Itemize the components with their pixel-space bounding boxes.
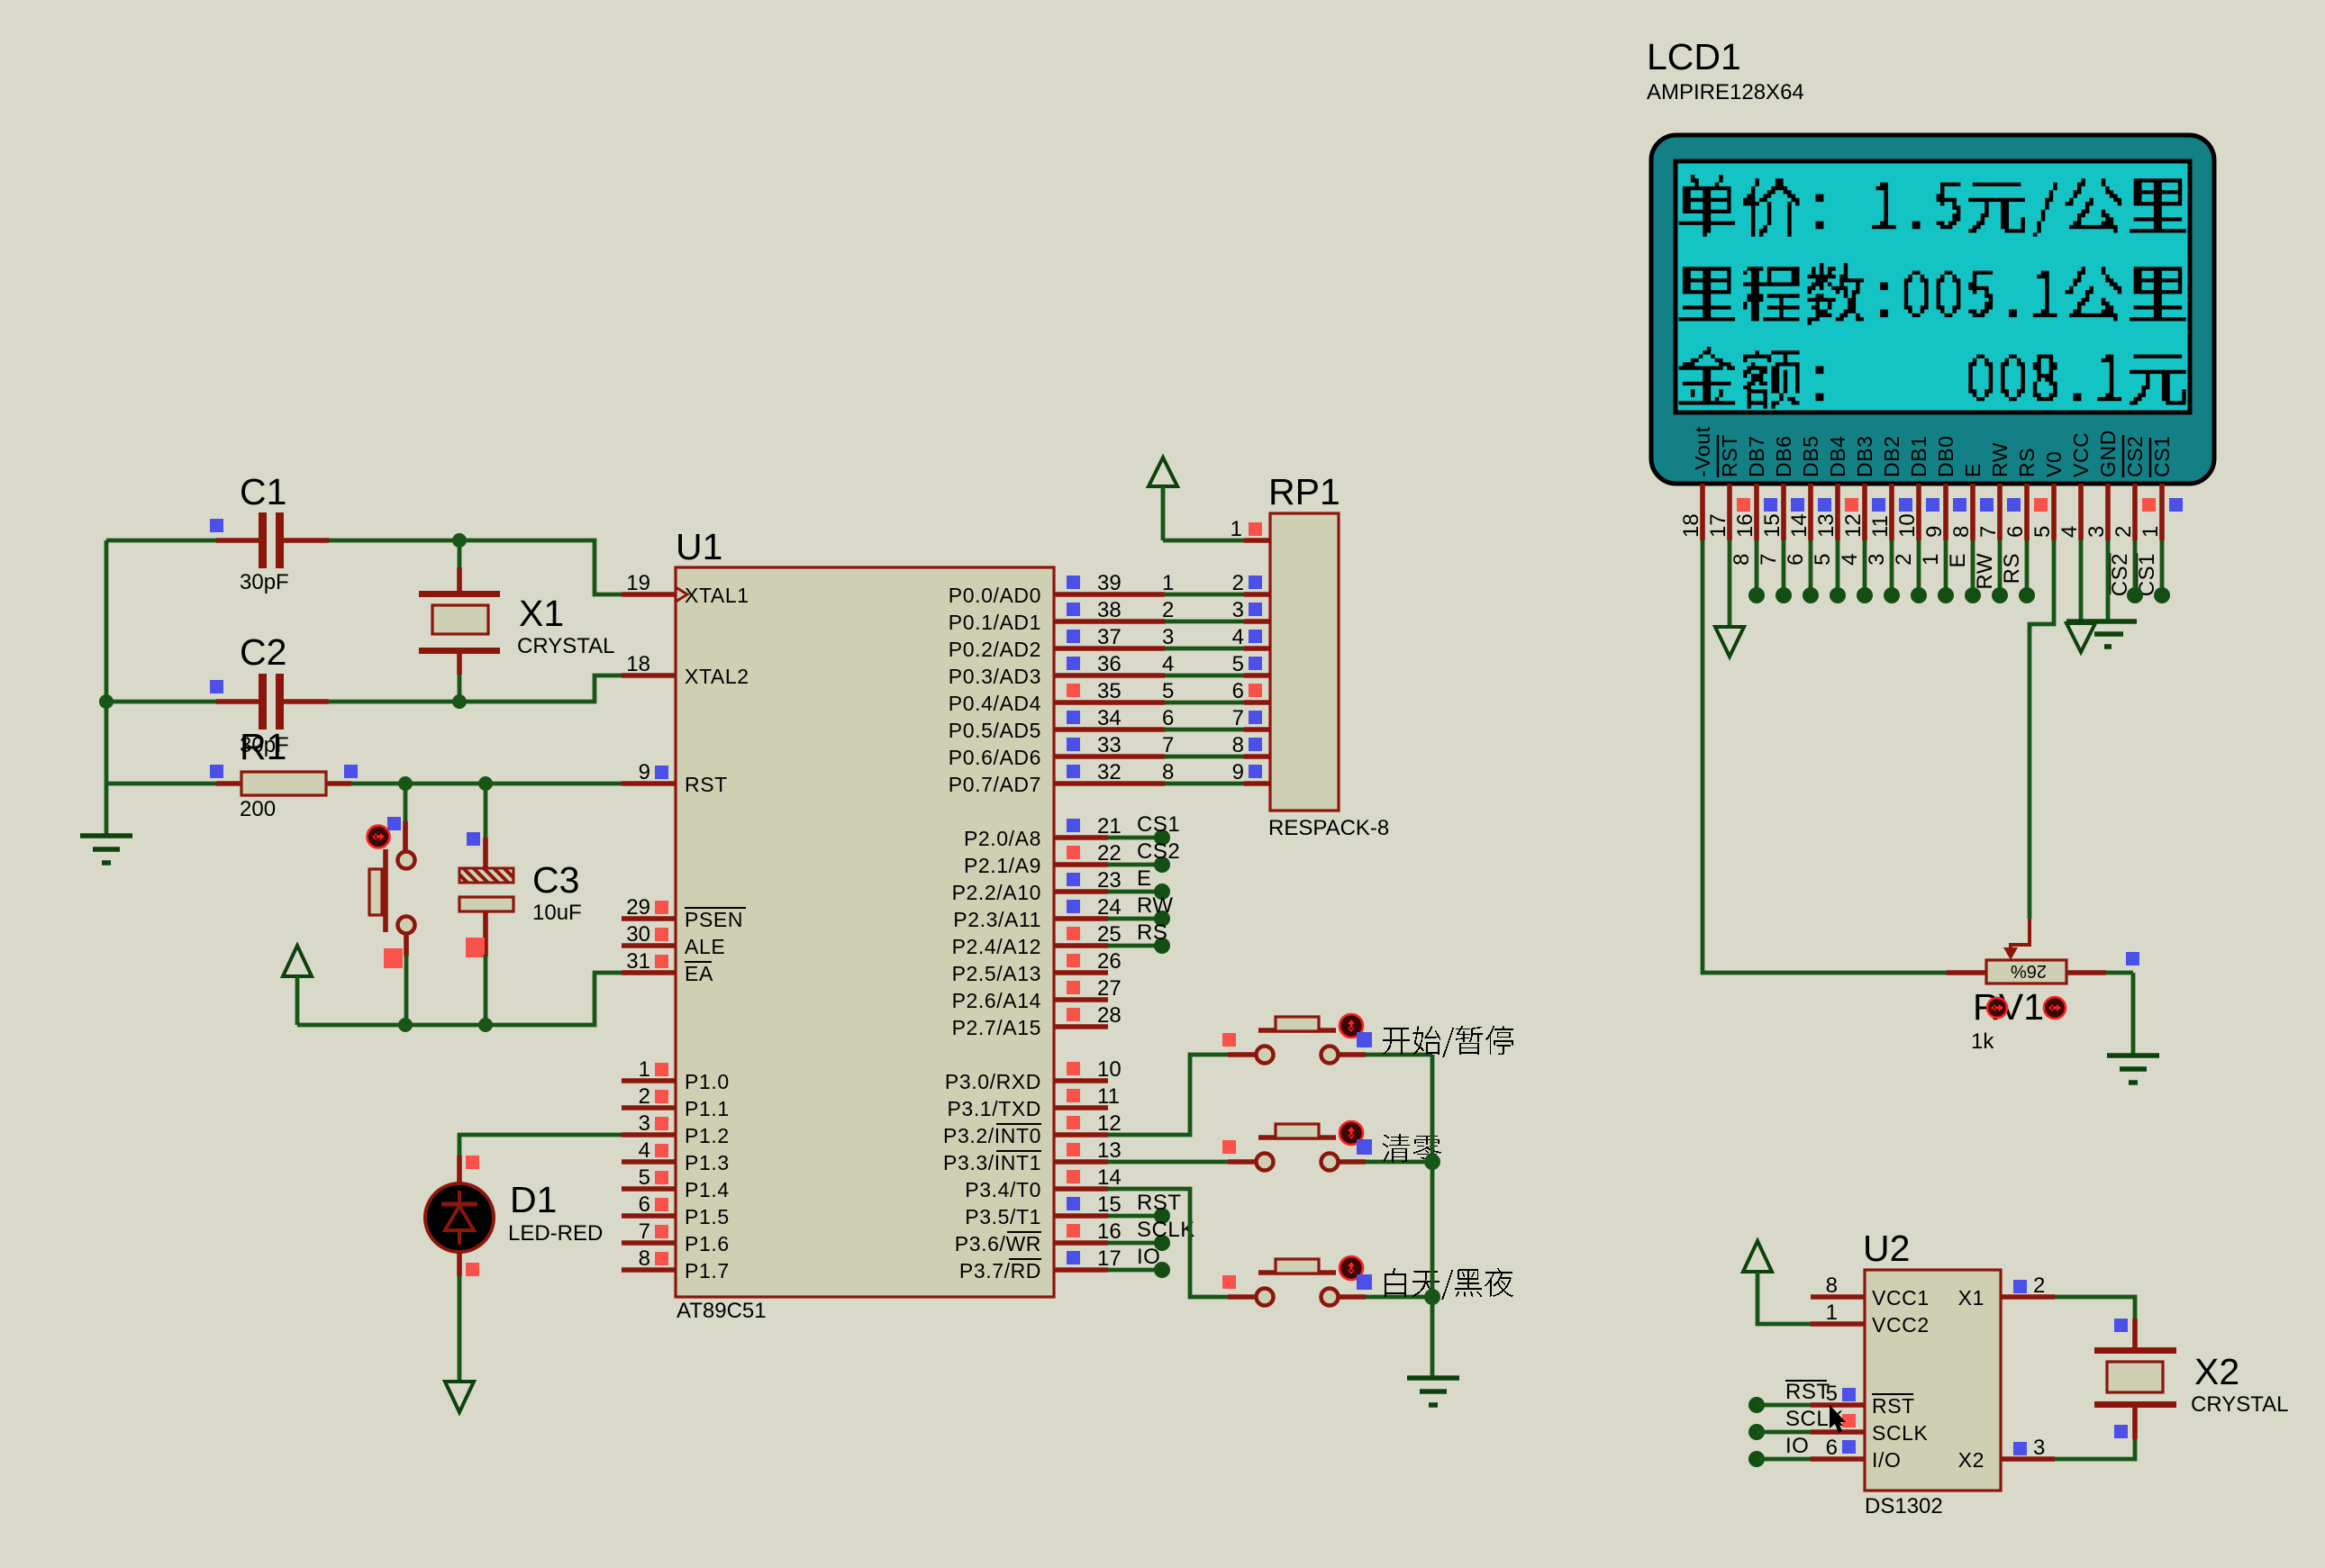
svg-text:XTAL1: XTAL1	[685, 584, 749, 607]
svg-text:9: 9	[639, 760, 650, 784]
svg-text:P0.1/AD1: P0.1/AD1	[949, 611, 1041, 634]
svg-text:P3.2/INT0: P3.2/INT0	[943, 1124, 1041, 1147]
svg-text:16: 16	[1733, 513, 1757, 538]
svg-text:P1.1: P1.1	[685, 1097, 730, 1120]
svg-text:2: 2	[1162, 598, 1174, 622]
wires RST/SCLK/IO nets to U2	[1748, 1380, 1844, 1467]
potentiometer RV1 1k	[1971, 919, 2139, 1054]
svg-text:32: 32	[1097, 760, 1122, 784]
svg-text:P3.1/TXD: P3.1/TXD	[947, 1097, 1041, 1120]
svg-text:EA: EA	[685, 962, 713, 985]
svg-text:3: 3	[639, 1111, 650, 1136]
svg-text:P1.7: P1.7	[685, 1259, 730, 1282]
svg-text:5: 5	[1811, 553, 1835, 566]
svg-text:10: 10	[1895, 513, 1920, 538]
svg-text:8: 8	[1826, 1273, 1838, 1298]
svg-text:5: 5	[1162, 679, 1174, 703]
wire bottom rail to EA	[297, 973, 622, 1025]
svg-text:8: 8	[1162, 760, 1174, 784]
svg-text:18: 18	[1679, 513, 1703, 538]
svg-text:GND: GND	[2096, 430, 2120, 477]
svg-text:E: E	[1961, 463, 1984, 477]
svg-text:3: 3	[1162, 625, 1174, 649]
svg-text:10uF: 10uF	[532, 901, 582, 925]
svg-text:5: 5	[1232, 652, 1244, 676]
wire left vertical bus C1-C2-R1 rows	[104, 540, 109, 784]
svg-text:15: 15	[1760, 513, 1785, 538]
svg-text:P1.2: P1.2	[685, 1124, 730, 1147]
svg-text:D1: D1	[510, 1179, 557, 1220]
svg-text:4: 4	[1232, 625, 1244, 649]
svg-text:P2.3/A11: P2.3/A11	[953, 908, 1041, 931]
svg-text:R1: R1	[240, 726, 286, 767]
svg-text:22: 22	[1097, 841, 1122, 866]
svg-text:8: 8	[1949, 526, 1974, 538]
op-amp U1 AT89C51 microcontroller body	[676, 526, 1054, 1323]
svg-text:39: 39	[1097, 571, 1122, 595]
svg-text:IO: IO	[1137, 1245, 1160, 1269]
svg-text:28: 28	[1097, 1003, 1122, 1028]
svg-text:RST: RST	[1872, 1394, 1915, 1418]
svg-text:1: 1	[1826, 1301, 1838, 1325]
svg-text:P2.5/A13: P2.5/A13	[952, 962, 1041, 985]
svg-text:24: 24	[1097, 895, 1122, 920]
node junction button2	[1424, 1154, 1440, 1170]
svg-text:9: 9	[1232, 760, 1244, 784]
svg-text:P2.7/A15: P2.7/A15	[952, 1016, 1041, 1039]
wire buttons common vertical	[1430, 1055, 1435, 1378]
svg-text:8: 8	[1730, 553, 1754, 566]
svg-text:7: 7	[1232, 706, 1244, 730]
svg-text:CS1: CS1	[1137, 812, 1180, 837]
svg-text:P2.1/A9: P2.1/A9	[964, 854, 1041, 877]
svg-text:36: 36	[1097, 652, 1122, 676]
push button day/night (白天/黑夜)	[1108, 1189, 1513, 1306]
svg-text:DB4: DB4	[1826, 435, 1849, 477]
svg-text:26: 26	[1097, 949, 1122, 974]
svg-text:P3.7/RD: P3.7/RD	[959, 1259, 1041, 1282]
node junction C2/X1	[452, 694, 467, 709]
U2 left pin labels	[1872, 1286, 1930, 1472]
svg-text:6: 6	[2003, 526, 2028, 538]
svg-text:DB6: DB6	[1772, 435, 1795, 477]
ground (left, below R1 row)	[80, 784, 132, 863]
svg-text:5: 5	[2030, 526, 2055, 538]
svg-text:25: 25	[1097, 922, 1122, 947]
svg-text:7: 7	[1976, 526, 2001, 538]
ground below RV1	[2107, 1053, 2159, 1058]
wire C2 row to XTAL2	[459, 675, 622, 702]
LED D1 (LED-RED)	[425, 1135, 622, 1412]
svg-text:3: 3	[2084, 526, 2109, 538]
svg-text:12: 12	[1097, 1111, 1122, 1136]
svg-text:2: 2	[2112, 526, 2136, 538]
svg-text:33: 33	[1097, 733, 1122, 757]
svg-text:RST: RST	[1785, 1380, 1830, 1404]
svg-text:6: 6	[1162, 706, 1174, 730]
svg-text:U2: U2	[1863, 1228, 1910, 1269]
svg-text:17: 17	[1706, 513, 1730, 538]
wire crystal to U2 X2	[2055, 1425, 2135, 1459]
svg-text:17: 17	[1097, 1246, 1122, 1271]
svg-text:P3.4/T0: P3.4/T0	[965, 1178, 1041, 1201]
svg-text:RST: RST	[685, 773, 728, 796]
svg-text:30: 30	[626, 922, 650, 947]
svg-text:RST: RST	[1137, 1191, 1182, 1215]
power arrow (down) at LCD VCC pin	[2066, 540, 2095, 652]
svg-text:SCLK: SCLK	[1137, 1218, 1195, 1242]
LCD screen text line3 金额: 008.1元	[1679, 347, 2186, 409]
svg-text:CS1: CS1	[2150, 435, 2174, 477]
push button start/pause (开始/暂停)	[1108, 1014, 1513, 1135]
svg-text:P3.0/RXD: P3.0/RXD	[945, 1070, 1041, 1093]
LCD pin stubs below body	[1679, 484, 2183, 540]
svg-text:30pF: 30pF	[240, 570, 289, 594]
svg-text:2: 2	[1232, 571, 1244, 595]
svg-text:DB5: DB5	[1799, 435, 1822, 477]
svg-text:DB2: DB2	[1880, 435, 1903, 477]
svg-text:26%: 26%	[2011, 961, 2047, 981]
svg-text:VCC1: VCC1	[1872, 1286, 1930, 1310]
node junction R1/C3	[478, 776, 493, 791]
svg-text:C2: C2	[240, 631, 286, 673]
svg-text:12: 12	[1841, 513, 1866, 538]
svg-text:P1.6: P1.6	[685, 1232, 730, 1255]
svg-text:RESPACK-8: RESPACK-8	[1268, 816, 1389, 840]
svg-text:1: 1	[1919, 553, 1943, 566]
svg-text:29: 29	[626, 895, 650, 920]
svg-text:P0.0/AD0: P0.0/AD0	[949, 584, 1041, 607]
svg-text:2: 2	[639, 1084, 650, 1109]
svg-text:1: 1	[1162, 571, 1174, 595]
mouse cursor	[1830, 1405, 1846, 1433]
svg-text:14: 14	[1097, 1165, 1122, 1190]
power arrow (up) at RP1 pin 1	[1149, 458, 1177, 540]
svg-text:8: 8	[1232, 733, 1244, 757]
svg-text:6: 6	[1232, 679, 1244, 703]
svg-text:LED-RED: LED-RED	[508, 1221, 603, 1246]
power arrow (up) U2 VCC2	[1743, 1241, 1811, 1324]
svg-text:6: 6	[1826, 1436, 1838, 1460]
svg-text:14: 14	[1787, 513, 1812, 538]
svg-text:P0.2/AD2: P0.2/AD2	[949, 638, 1041, 661]
U1 left pin stubs and numbers	[622, 571, 676, 1271]
svg-text:DB1: DB1	[1907, 435, 1930, 477]
svg-text:RW: RW	[1973, 553, 1997, 590]
svg-text:7: 7	[1162, 733, 1174, 757]
push button clear (清零)	[1108, 1121, 1441, 1171]
svg-text:200: 200	[240, 797, 276, 821]
resistor pack RP1 RESPACK-8 body	[1268, 471, 1389, 840]
svg-text:10: 10	[1097, 1057, 1122, 1082]
svg-text:38: 38	[1097, 598, 1122, 622]
svg-text:P3.3/INT1: P3.3/INT1	[943, 1151, 1041, 1174]
svg-text:ALE: ALE	[685, 935, 725, 958]
svg-text:23: 23	[1097, 868, 1122, 893]
svg-text:1: 1	[2139, 526, 2163, 538]
ground at LCD GND pin	[2066, 540, 2137, 647]
svg-text:P2.0/A8: P2.0/A8	[964, 827, 1041, 850]
svg-text:RS: RS	[2000, 553, 2024, 584]
push button (reset)	[368, 784, 415, 1025]
resistor R1	[106, 726, 622, 821]
U2 right pins X1 X2	[1958, 1273, 2055, 1472]
svg-text:P1.0: P1.0	[685, 1070, 730, 1093]
svg-text:27: 27	[1097, 976, 1122, 1001]
svg-text:4: 4	[1162, 652, 1174, 676]
ground below buttons	[1407, 1375, 1459, 1381]
svg-text:P2.4/A12: P2.4/A12	[952, 935, 1041, 958]
svg-text:VCC2: VCC2	[1872, 1313, 1930, 1337]
svg-text:P1.5: P1.5	[685, 1205, 730, 1228]
svg-text:35: 35	[1097, 679, 1122, 703]
svg-text:18: 18	[626, 652, 650, 676]
svg-text:CRYSTAL: CRYSTAL	[2191, 1392, 2288, 1417]
svg-text:LCD1: LCD1	[1647, 36, 1741, 77]
svg-text:-Vout: -Vout	[1691, 426, 1714, 477]
svg-text:3: 3	[1865, 553, 1889, 566]
node junction rail/C3	[478, 1018, 493, 1032]
node junction button3	[1424, 1289, 1440, 1305]
svg-text:P0.3/AD3: P0.3/AD3	[949, 665, 1041, 688]
U2 left pin stubs	[1811, 1273, 1865, 1460]
wire RP1 pin1	[1163, 517, 1270, 541]
svg-text:P1.3: P1.3	[685, 1151, 730, 1174]
svg-text:15: 15	[1097, 1192, 1122, 1217]
svg-text:2: 2	[1892, 553, 1916, 566]
svg-text:IO: IO	[1785, 1434, 1809, 1458]
svg-text:1: 1	[1231, 517, 1242, 541]
svg-text:P3.5/T1: P3.5/T1	[965, 1205, 1041, 1228]
svg-text:11: 11	[1097, 1084, 1120, 1109]
svg-text:RP1: RP1	[1268, 471, 1340, 512]
svg-text:X2: X2	[1958, 1448, 1984, 1472]
svg-text:RS: RS	[1137, 920, 1167, 945]
svg-text:21: 21	[1097, 814, 1122, 838]
svg-text:P0.4/AD4: P0.4/AD4	[949, 692, 1041, 715]
svg-text:13: 13	[1097, 1138, 1122, 1163]
wire V0 to RV1 wiper	[2030, 540, 2054, 919]
svg-text:19: 19	[626, 571, 650, 595]
svg-text:RS: RS	[2015, 448, 2039, 477]
node junction R1/button	[398, 776, 413, 791]
LCD screen text line2 里程数:005.1公里	[1679, 263, 2186, 325]
capacitor C2	[106, 631, 459, 757]
LCD pin net labels (rotated, below)	[1730, 553, 2159, 596]
node junction rail/button	[398, 1018, 413, 1032]
wires U1 P0 bus to RP1 pins 2-9	[1162, 571, 1270, 784]
U1 left pin labels	[685, 584, 749, 1282]
svg-text:1k: 1k	[1971, 1029, 1994, 1054]
svg-text:16: 16	[1097, 1219, 1122, 1244]
svg-text:E: E	[1946, 553, 1970, 568]
svg-text:8: 8	[639, 1246, 650, 1271]
U1 right pin stubs and numbers	[1054, 571, 1165, 1271]
svg-text:SCLK: SCLK	[1872, 1421, 1929, 1445]
svg-text:AT89C51: AT89C51	[677, 1299, 767, 1323]
svg-text:11: 11	[1868, 515, 1893, 538]
svg-text:31: 31	[626, 949, 650, 974]
svg-text:X1: X1	[519, 593, 564, 634]
svg-text:7: 7	[1757, 553, 1781, 566]
svg-text:U1: U1	[676, 526, 722, 567]
svg-text:P1.4: P1.4	[685, 1178, 730, 1201]
svg-text:6: 6	[639, 1192, 650, 1217]
svg-text:DB7: DB7	[1745, 435, 1768, 477]
svg-text:P0.7/AD7: P0.7/AD7	[949, 773, 1041, 796]
capacitor C3 (electrolytic 10uF)	[459, 784, 582, 1025]
LCD data pin wires with terminal dots	[1748, 540, 2035, 603]
LCD pin labels (rotated)	[1691, 426, 2174, 477]
svg-text:P2.2/A10: P2.2/A10	[952, 881, 1041, 904]
svg-text:CS2: CS2	[1137, 839, 1180, 864]
crystal X1	[419, 540, 614, 702]
power arrow (up) left	[283, 946, 312, 1025]
capacitor C1	[106, 471, 459, 594]
wire C1 row to XTAL1	[459, 540, 622, 594]
svg-text:9: 9	[1922, 526, 1947, 538]
svg-text:V0: V0	[2042, 451, 2066, 477]
svg-text:CRYSTAL: CRYSTAL	[517, 634, 614, 658]
svg-text:6: 6	[1784, 553, 1808, 566]
U1 right pin labels	[943, 584, 1041, 1282]
svg-text:VCC: VCC	[2069, 432, 2093, 477]
svg-text:RST: RST	[1718, 434, 1741, 477]
node junction above X1	[452, 533, 467, 548]
LCD screen text line1 单价: 1.5元/公里	[1679, 175, 2186, 237]
svg-text:2: 2	[2033, 1273, 2045, 1298]
svg-text:XTAL2: XTAL2	[685, 665, 749, 688]
svg-text:RW: RW	[1137, 893, 1174, 918]
wire CS2/CS1 pins	[2127, 540, 2170, 603]
crystal X2	[2094, 1319, 2288, 1439]
svg-text:3: 3	[2033, 1436, 2045, 1460]
svg-text:DB3: DB3	[1853, 435, 1876, 477]
svg-text:E: E	[1137, 866, 1152, 891]
power arrow (down) at LCD RST pin	[1715, 540, 1744, 657]
wires U1 P3.5-P3.7 DS1302 nets	[1108, 1191, 1195, 1278]
svg-text:5: 5	[639, 1165, 650, 1190]
RTC U2 DS1302 body	[1863, 1228, 2001, 1518]
svg-text:34: 34	[1097, 706, 1122, 730]
svg-text:RV1: RV1	[1973, 986, 2044, 1028]
svg-text:4: 4	[639, 1138, 650, 1163]
svg-text:CS2: CS2	[2123, 435, 2147, 477]
svg-text:P0.6/AD6: P0.6/AD6	[949, 746, 1041, 769]
svg-text:CS2: CS2	[2108, 553, 2132, 596]
svg-text:7: 7	[639, 1219, 650, 1244]
wire -Vout to RV1	[1703, 540, 1986, 973]
svg-text:X1: X1	[1958, 1286, 1984, 1310]
svg-text:DS1302: DS1302	[1865, 1494, 1943, 1518]
svg-text:C1: C1	[240, 471, 286, 512]
svg-text:4: 4	[1838, 553, 1862, 566]
svg-text:I/O: I/O	[1872, 1448, 1901, 1472]
svg-text:P3.6/WR: P3.6/WR	[955, 1232, 1041, 1255]
svg-text:PSEN: PSEN	[685, 908, 743, 931]
svg-text:C3: C3	[532, 859, 579, 901]
svg-text:13: 13	[1814, 513, 1839, 538]
wire U2 X1 to crystal X2	[2055, 1297, 2135, 1332]
svg-text:P2.6/A14: P2.6/A14	[952, 989, 1041, 1012]
svg-text:AMPIRE128X64: AMPIRE128X64	[1647, 80, 1804, 104]
svg-text:1: 1	[639, 1057, 650, 1082]
svg-text:4: 4	[2057, 526, 2082, 538]
svg-text:P0.5/AD5: P0.5/AD5	[949, 719, 1041, 742]
LCD1 AMPIRE128X64 module	[1647, 36, 2214, 484]
svg-text:3: 3	[1232, 598, 1244, 622]
svg-text:DB0: DB0	[1934, 435, 1957, 477]
svg-text:RW: RW	[1988, 442, 2012, 477]
svg-text:X2: X2	[2194, 1351, 2239, 1392]
svg-text:37: 37	[1097, 625, 1122, 649]
wires U1 P2.0-P2.4 LCD control nets	[1108, 812, 1180, 954]
